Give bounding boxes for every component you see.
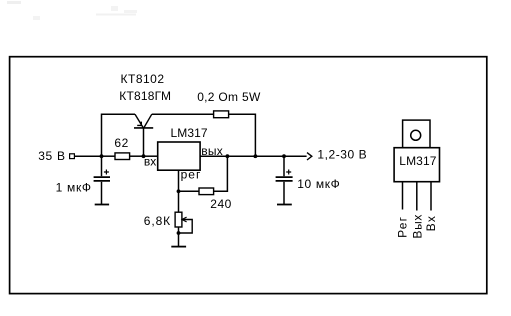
svg-text:35 В: 35 В	[38, 149, 65, 163]
label КТ8102	[121, 72, 165, 86]
label LM317	[171, 126, 208, 140]
resistor R1 62	[115, 153, 130, 160]
svg-text:1,2-30 В: 1,2-30 В	[317, 148, 367, 162]
input terminal	[70, 154, 75, 159]
label КТ818ГМ	[119, 89, 171, 103]
svg-text:Рег: Рег	[396, 216, 410, 238]
junction node D	[254, 154, 258, 158]
transistor Q1 KT818GM	[134, 114, 153, 128]
output arrow	[307, 153, 312, 160]
pin 3 lead	[430, 182, 432, 211]
package U1 body	[394, 148, 439, 182]
svg-text:LM317: LM317	[399, 154, 436, 168]
junction node E	[282, 154, 286, 158]
wire U1 output rail	[200, 155, 307, 157]
ground	[171, 246, 186, 248]
wire node B to U1 input	[144, 155, 158, 157]
faint scan artifacts	[7, 1, 137, 20]
label 62	[114, 136, 128, 150]
pin label вх	[144, 154, 156, 168]
svg-text:6,8К: 6,8К	[144, 214, 171, 228]
pin label вых	[201, 144, 223, 158]
junction node C	[226, 154, 230, 158]
wire R2 to output rail	[229, 114, 256, 156]
pin label Вх	[424, 215, 438, 232]
label 1,2-30 В	[317, 148, 367, 162]
svg-text:10 мкФ: 10 мкФ	[297, 177, 340, 191]
junction node F	[177, 189, 181, 193]
label 0,2 Om 5W	[197, 90, 261, 104]
wire pot to ground	[178, 227, 180, 247]
svg-text:КТ8102: КТ8102	[121, 72, 165, 86]
junction node A	[100, 154, 104, 158]
package mounting hole	[411, 130, 421, 140]
wire R1 to node B	[130, 155, 144, 157]
capacitor C1 1 мкФ	[94, 156, 110, 204]
pin label Вых	[411, 214, 425, 239]
resistor R3 240	[199, 188, 214, 195]
op-amp U1 LM317 box	[158, 142, 200, 170]
pin 2 lead	[416, 182, 418, 211]
label 240	[210, 197, 232, 211]
junction node B	[142, 154, 146, 158]
potentiometer R4 6,8К	[175, 212, 192, 233]
wire node A up to emitter rail	[102, 114, 136, 156]
label 10 мкФ	[297, 177, 340, 191]
svg-text:LM317: LM317	[171, 126, 208, 140]
wire node F to potentiometer	[178, 191, 180, 212]
wire R3 up to node C	[214, 156, 228, 191]
resistor R2 0,2 Om 5W	[214, 111, 229, 118]
svg-text:КТ818ГМ: КТ818ГМ	[119, 89, 171, 103]
capacitor C2 10 мкФ	[276, 156, 293, 204]
svg-text:240: 240	[210, 197, 232, 211]
label 35 В	[38, 149, 65, 163]
svg-text:0,2 Om 5W: 0,2 Om 5W	[197, 90, 261, 104]
svg-text:вх: вх	[144, 154, 156, 168]
pin 1 lead	[402, 182, 404, 210]
schematic border frame	[10, 57, 487, 294]
package U1 tab	[403, 120, 430, 148]
label 1 мкФ	[56, 181, 92, 195]
pin label рег	[181, 167, 202, 181]
wire input to node A	[75, 155, 102, 157]
wire node F to R3	[179, 190, 200, 192]
svg-text:Вх: Вх	[424, 215, 438, 232]
wire node A to resistor R1	[102, 155, 116, 157]
ground	[277, 204, 292, 206]
wire base lead	[143, 128, 145, 156]
label LM317 package	[399, 154, 436, 168]
svg-text:62: 62	[114, 136, 128, 150]
pin label Рег	[396, 216, 410, 238]
wire U1 adj pin down	[178, 170, 180, 191]
svg-text:рег: рег	[181, 167, 202, 181]
ground	[95, 204, 109, 206]
label 6,8К	[144, 214, 171, 228]
wire collector to resistor R2	[152, 113, 214, 115]
svg-text:1 мкФ: 1 мкФ	[56, 181, 92, 195]
svg-text:Вых: Вых	[411, 214, 425, 239]
junction node G	[177, 231, 181, 235]
